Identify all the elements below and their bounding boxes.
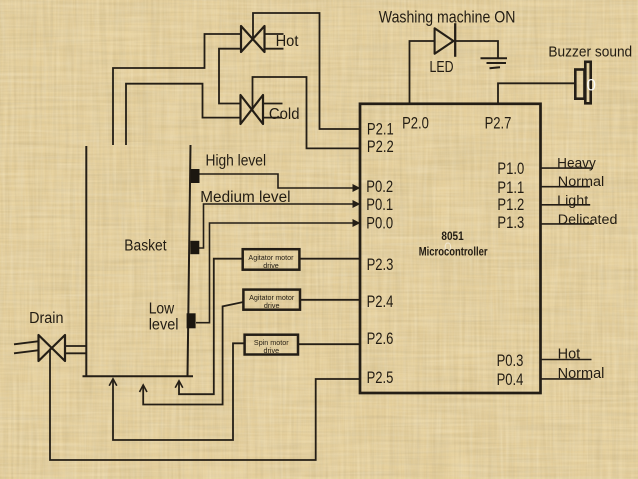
- svg-text:P2.7: P2.7: [485, 114, 512, 132]
- wire: drain left pipes: [14, 341, 38, 353]
- wire: P1.1 Normal: [541, 186, 591, 188]
- sensor: high level: [191, 169, 200, 183]
- valve Cold: [241, 95, 264, 124]
- svg-text:Normal: Normal: [558, 174, 604, 189]
- svg-text:level: level: [149, 317, 179, 334]
- basket left wall: [85, 146, 87, 376]
- svg-text:Microcontroller: Microcontroller: [419, 247, 488, 259]
- svg-text:Washing machine ON: Washing machine ON: [379, 9, 516, 27]
- svg-text:P2.1: P2.1: [367, 120, 394, 138]
- svg-text:Delicated: Delicated: [558, 212, 618, 227]
- wire: P2.7 to buzzer: [498, 83, 575, 103]
- svg-text:P1.2: P1.2: [497, 196, 524, 214]
- buzzer speaker rectangle: [575, 70, 584, 99]
- svg-text:P2.4: P2.4: [367, 293, 394, 311]
- svg-text:P2.5: P2.5: [367, 369, 394, 387]
- svg-text:drive: drive: [263, 261, 279, 270]
- wire: drain valve to P2.5: [50, 349, 360, 461]
- svg-text:Basket: Basket: [124, 238, 167, 255]
- wire: drive box 1 input loop to agitator arrow 3: [179, 259, 243, 395]
- wire: drive box 1 to P2.3: [299, 258, 360, 260]
- svg-text:P2.6: P2.6: [367, 330, 394, 348]
- svg-text:drive: drive: [264, 346, 280, 355]
- ground symbol: [481, 58, 508, 68]
- svg-text:Light: Light: [557, 193, 588, 208]
- wire: spin drive box to P2.6: [298, 343, 360, 345]
- box: agitator motor drive 1: [243, 249, 300, 270]
- svg-text:Buzzer sound: Buzzer sound: [548, 44, 632, 60]
- svg-text:Drain: Drain: [29, 310, 63, 327]
- wire: drain right pipes to basket: [65, 346, 86, 353]
- wire: spin drive input loop to arrow 1: [113, 343, 245, 440]
- wire: low level sensor to P0.0: [196, 223, 354, 323]
- valve Hot: [241, 26, 265, 52]
- svg-text:Medium level: Medium level: [200, 189, 290, 206]
- svg-text:P0.2: P0.2: [366, 178, 393, 196]
- wire: Cold valve stem to P2.2: [253, 77, 361, 148]
- svg-text:Cold: Cold: [269, 106, 300, 123]
- svg-text:P1.0: P1.0: [497, 160, 524, 178]
- svg-text:Normal: Normal: [558, 366, 605, 382]
- svg-text:P2.0: P2.0: [402, 114, 429, 132]
- wire: LED anode to P2.0: [410, 41, 435, 104]
- svg-text:P0.4: P0.4: [497, 371, 524, 389]
- wire: Cold valve right stubs: [263, 104, 283, 118]
- svg-text:P0.1: P0.1: [366, 196, 393, 214]
- arrowhead into P0.2: [353, 184, 361, 192]
- wire: P1.0 Heavy: [541, 167, 594, 169]
- valve Drain: [39, 335, 66, 361]
- wire: drive box 2 input loop to agitator arrow 2: [143, 302, 243, 405]
- arrowhead: motor arrow 3: [175, 381, 183, 388]
- sensor: medium level: [190, 241, 199, 254]
- LED cathode bar: [454, 23, 456, 57]
- arrowhead: motor arrow 1: [109, 379, 117, 386]
- svg-text:P1.3: P1.3: [497, 214, 524, 232]
- svg-text:P1.1: P1.1: [497, 179, 524, 197]
- wire: P1.3 Delicated: [541, 223, 595, 225]
- svg-text:Heavy: Heavy: [557, 156, 596, 171]
- svg-text:P2.3: P2.3: [367, 256, 394, 274]
- wire: high level sensor to P0.2: [199, 174, 354, 188]
- wire: P0.4 Normal: [541, 378, 591, 380]
- svg-text:LED: LED: [430, 59, 454, 76]
- buzzer plate rectangle: [585, 62, 590, 104]
- wire: P1.2 Light: [541, 204, 591, 206]
- basket bottom: [83, 375, 194, 377]
- svg-text:Hot: Hot: [276, 33, 299, 50]
- wire: inlet pipe B to Cold valve: [126, 84, 241, 145]
- box: spin motor drive: [245, 335, 298, 355]
- wire: drive box 2 to P2.4: [300, 299, 360, 301]
- svg-text:drive: drive: [264, 301, 280, 310]
- wire: inlet pipe A to Hot valve: [113, 34, 241, 145]
- svg-text:Hot: Hot: [558, 346, 581, 362]
- svg-text:P0.0: P0.0: [366, 215, 393, 233]
- wire: medium level sensor to P0.1: [196, 204, 354, 248]
- wire: P0.3 Hot: [541, 359, 592, 361]
- arrowhead into P0.1: [353, 200, 361, 208]
- box: agitator motor drive 2: [243, 290, 300, 310]
- wire: Hot lower-left to Cold upper-left common: [219, 49, 241, 104]
- wire: Hot valve stem to P2.1: [253, 13, 360, 129]
- svg-text:0: 0: [587, 76, 596, 95]
- wire: LED cathode to ground: [456, 41, 498, 58]
- svg-text:P0.3: P0.3: [497, 352, 524, 370]
- arrowhead into P0.0: [353, 219, 361, 227]
- arrowhead: motor arrow 2: [140, 385, 148, 392]
- LED diode triangle: [435, 28, 454, 54]
- wire: Hot valve right stubs: [265, 34, 284, 49]
- svg-text:Low: Low: [149, 300, 175, 317]
- svg-text:P2.2: P2.2: [367, 138, 394, 156]
- svg-text:8051: 8051: [441, 231, 464, 243]
- sensor: low level: [187, 313, 196, 328]
- op-box U1 8051 microcontroller outline: [360, 104, 541, 393]
- basket right wall: [188, 145, 191, 376]
- svg-text:High level: High level: [206, 152, 267, 169]
